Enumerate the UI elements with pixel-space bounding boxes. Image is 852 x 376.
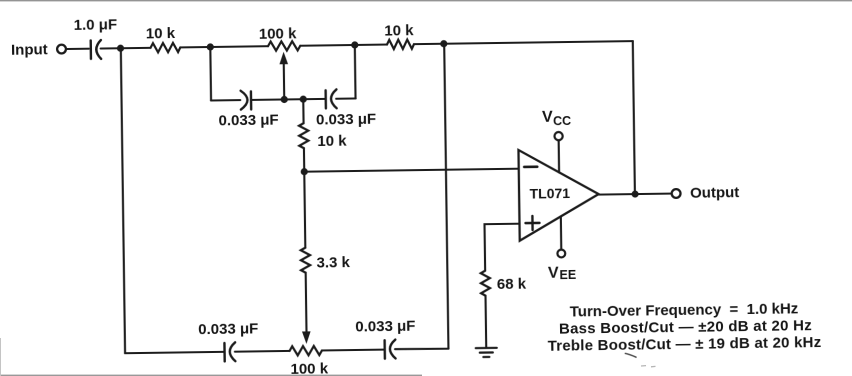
Vcc terminal: [554, 132, 562, 140]
wire C5 to bottom-right corner: [395, 348, 448, 349]
potentiometer P2 100 k: [289, 346, 322, 356]
wire R3 node down to R3: [302, 99, 304, 123]
svg-text:3.3 k: 3.3 k: [316, 254, 350, 271]
svg-text:0.033 μF: 0.033 μF: [355, 318, 415, 336]
wire C1 to node A: [101, 47, 118, 49]
capacitor C5 0.033 uF: [385, 340, 396, 359]
capacitor C2 0.033 uF: [241, 91, 252, 110]
wire C2 to wiper node: [251, 98, 282, 101]
label Vcc: [542, 108, 571, 128]
svg-text:100 k: 100 k: [290, 360, 328, 376]
wire R1 to node B: [180, 46, 208, 48]
wire C4 to pot P2: [235, 350, 290, 353]
wire Vcc pin: [558, 141, 561, 173]
resistor R4 3.3 k vertical: [301, 248, 311, 273]
resistor R3 10 k vertical: [299, 123, 309, 148]
svg-text:10 k: 10 k: [384, 22, 414, 39]
wire R2 to node D and on to top-right corner: [414, 41, 633, 44]
output node junction: [632, 191, 639, 198]
top page border line: [0, 0, 852, 1]
wire P1 to node C: [300, 44, 352, 47]
ground: [476, 348, 497, 357]
resistor R2 10 k: [387, 40, 414, 50]
capacitor C4 0.033 uF: [224, 342, 235, 361]
P2 wiper arrow (pointing down): [302, 331, 311, 344]
op-amp U1 TL071: [518, 149, 599, 241]
svg-text:TL071: TL071: [529, 185, 570, 202]
wire node A to R1: [121, 47, 151, 50]
wire feedback vertical from node D to bottom rail: [444, 44, 448, 349]
svg-text:100 k: 100 k: [259, 25, 297, 43]
node A junction: [117, 45, 124, 52]
svg-text:EE: EE: [559, 268, 576, 282]
label Vee: [548, 265, 576, 283]
wire wiper node to R3 node: [284, 98, 303, 100]
resistor R1 10 k: [150, 43, 180, 53]
svg-text:0.033 μF: 0.033 μF: [218, 112, 278, 130]
R3 node junction: [300, 96, 307, 103]
wire left vertical from node A to bottom rail: [121, 48, 125, 353]
node C junction: [351, 41, 358, 48]
svg-text:10 k: 10 k: [317, 132, 347, 149]
svg-text:1.0 μF: 1.0 μF: [74, 16, 118, 34]
faint scan specks: [641, 366, 656, 367]
svg-text:CC: CC: [553, 114, 571, 128]
capacitor C1 1.0 uF: [91, 40, 101, 59]
wire node C down to cap rail: [354, 45, 357, 98]
U1 non-inverting input plus sign: [525, 216, 539, 230]
capacitor C3 0.033 uF: [326, 89, 337, 108]
P1 wiper arrow: [279, 52, 288, 100]
output terminal: [672, 189, 681, 198]
wire Vee pin: [560, 217, 563, 250]
wire cap rail left segment: [211, 99, 240, 102]
wire non-inverting input to 68k: [485, 224, 521, 271]
svg-text:Input: Input: [11, 41, 48, 59]
svg-text:V: V: [542, 109, 553, 126]
svg-text:10 k: 10 k: [146, 25, 176, 42]
wiper node junction: [281, 96, 288, 103]
wire node E to op-amp inverting input: [304, 169, 518, 172]
svg-text:0.033 μF: 0.033 μF: [198, 321, 258, 339]
svg-text:V: V: [548, 265, 559, 282]
wire R4 down to wiper arrow of P2: [305, 273, 308, 332]
bottom page border line: [0, 375, 422, 376]
node D junction: [440, 40, 447, 47]
wire input terminal to C1: [66, 48, 88, 50]
svg-text:68 k: 68 k: [497, 275, 527, 292]
node B junction: [207, 43, 214, 50]
scan artifact under Boost: [625, 353, 636, 357]
wire node B down to cap rail: [209, 47, 212, 100]
svg-text:0.033 μF: 0.033 μF: [316, 111, 376, 129]
wire 68k to ground: [484, 296, 487, 348]
wire op-amp output to output terminal: [599, 194, 672, 195]
svg-text:Output: Output: [690, 184, 739, 202]
potentiometer P1 100 k: [268, 41, 300, 51]
input terminal: [57, 45, 66, 54]
wire node E down to R4: [304, 172, 305, 248]
wire node B to pot P1: [210, 45, 268, 48]
resistor R5 68 k vertical: [481, 271, 490, 296]
U1 inverting input minus sign: [524, 165, 537, 168]
wire top-right corner down to output node: [633, 41, 635, 194]
wire R3 node to C3: [303, 98, 325, 100]
node E junction: [301, 168, 308, 175]
Vee terminal: [557, 250, 565, 258]
wire C3 to right corner of cap rail: [336, 97, 355, 99]
wire P2 to C5: [322, 349, 384, 352]
wire node C to R2: [355, 43, 387, 46]
wire bottom rail left segment: [125, 352, 224, 353]
wire R3 to node E: [303, 148, 305, 171]
